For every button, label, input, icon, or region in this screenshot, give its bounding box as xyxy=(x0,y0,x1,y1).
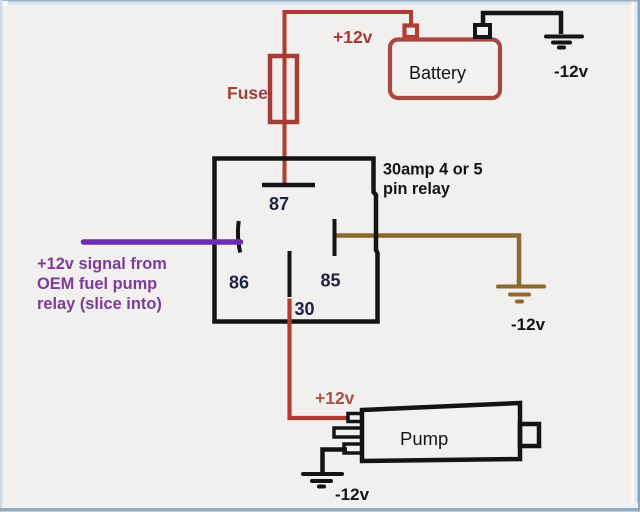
ground (pump) xyxy=(303,474,342,487)
label +12v (pump feed) xyxy=(315,388,355,408)
svg-text:pin relay: pin relay xyxy=(383,180,450,198)
label pin 86 xyxy=(229,273,249,293)
svg-text:Battery: Battery xyxy=(409,63,466,83)
pin 30 contact xyxy=(288,251,292,297)
svg-text:30amp 4 or 5: 30amp 4 or 5 xyxy=(383,161,483,179)
label pin 85 xyxy=(321,271,341,291)
pump pin 1 (+12v) xyxy=(348,414,362,422)
svg-text:+12v: +12v xyxy=(315,388,355,408)
svg-text:87: 87 xyxy=(269,194,289,214)
border frame bottom xyxy=(0,503,640,512)
svg-text:-12v: -12v xyxy=(554,62,589,81)
wire battery negative to ground xyxy=(483,13,561,34)
wire +12v red: fuse to battery positive xyxy=(285,12,412,186)
svg-text:86: 86 xyxy=(229,273,249,293)
wire +12v signal (purple) to pin 86 xyxy=(84,239,241,245)
wire pin 30 to pump (red) xyxy=(290,299,349,419)
node battery negative terminal xyxy=(475,25,490,37)
label -12v (battery ground) xyxy=(554,62,589,81)
label pin 30 xyxy=(295,299,315,319)
pin 86 contact xyxy=(238,221,240,253)
ground (battery negative) xyxy=(546,37,582,48)
svg-text:relay (slice into): relay (slice into) xyxy=(37,295,162,313)
label -12v (relay coil ground) xyxy=(511,315,546,334)
label pin 87 xyxy=(269,194,289,214)
pump outlet tab xyxy=(520,424,539,446)
label +12v signal from OEM fuel pump relay (slice into) xyxy=(37,255,167,313)
svg-text:-12v: -12v xyxy=(335,485,370,504)
border frame top xyxy=(0,0,640,6)
svg-text:+12v: +12v xyxy=(333,27,373,47)
wire pin 85 to ground (brown) xyxy=(333,236,519,286)
pump pin 2 xyxy=(334,428,362,437)
svg-text:Fuse: Fuse xyxy=(227,83,268,103)
border frame left xyxy=(0,0,3,512)
label -12v (pump ground) xyxy=(335,485,370,504)
pin 87 contact xyxy=(262,183,315,188)
label 30amp 4 or 5 pin relay xyxy=(383,161,483,199)
svg-text:-12v: -12v xyxy=(511,315,546,334)
node battery positive terminal xyxy=(405,26,418,38)
relay K1 body (30amp 4 or 5 pin relay) xyxy=(215,159,378,322)
svg-text:Pump: Pump xyxy=(400,428,448,449)
label +12v (battery feed) xyxy=(333,27,373,47)
fuse F1 xyxy=(270,56,297,122)
pin 85 contact xyxy=(333,219,337,256)
battery B1 xyxy=(390,40,500,99)
svg-text:OEM fuel pump: OEM fuel pump xyxy=(37,275,157,293)
svg-text:85: 85 xyxy=(321,271,341,291)
border frame right xyxy=(632,0,640,512)
label Fuse xyxy=(227,83,268,103)
ground (relay coil) xyxy=(498,287,544,302)
svg-text:+12v signal from: +12v signal from xyxy=(37,255,167,273)
pump pin 3 (ground) xyxy=(344,444,362,453)
svg-text:30: 30 xyxy=(295,299,315,319)
wire pump to ground (black) xyxy=(323,450,348,473)
pump M1 body xyxy=(362,403,520,461)
